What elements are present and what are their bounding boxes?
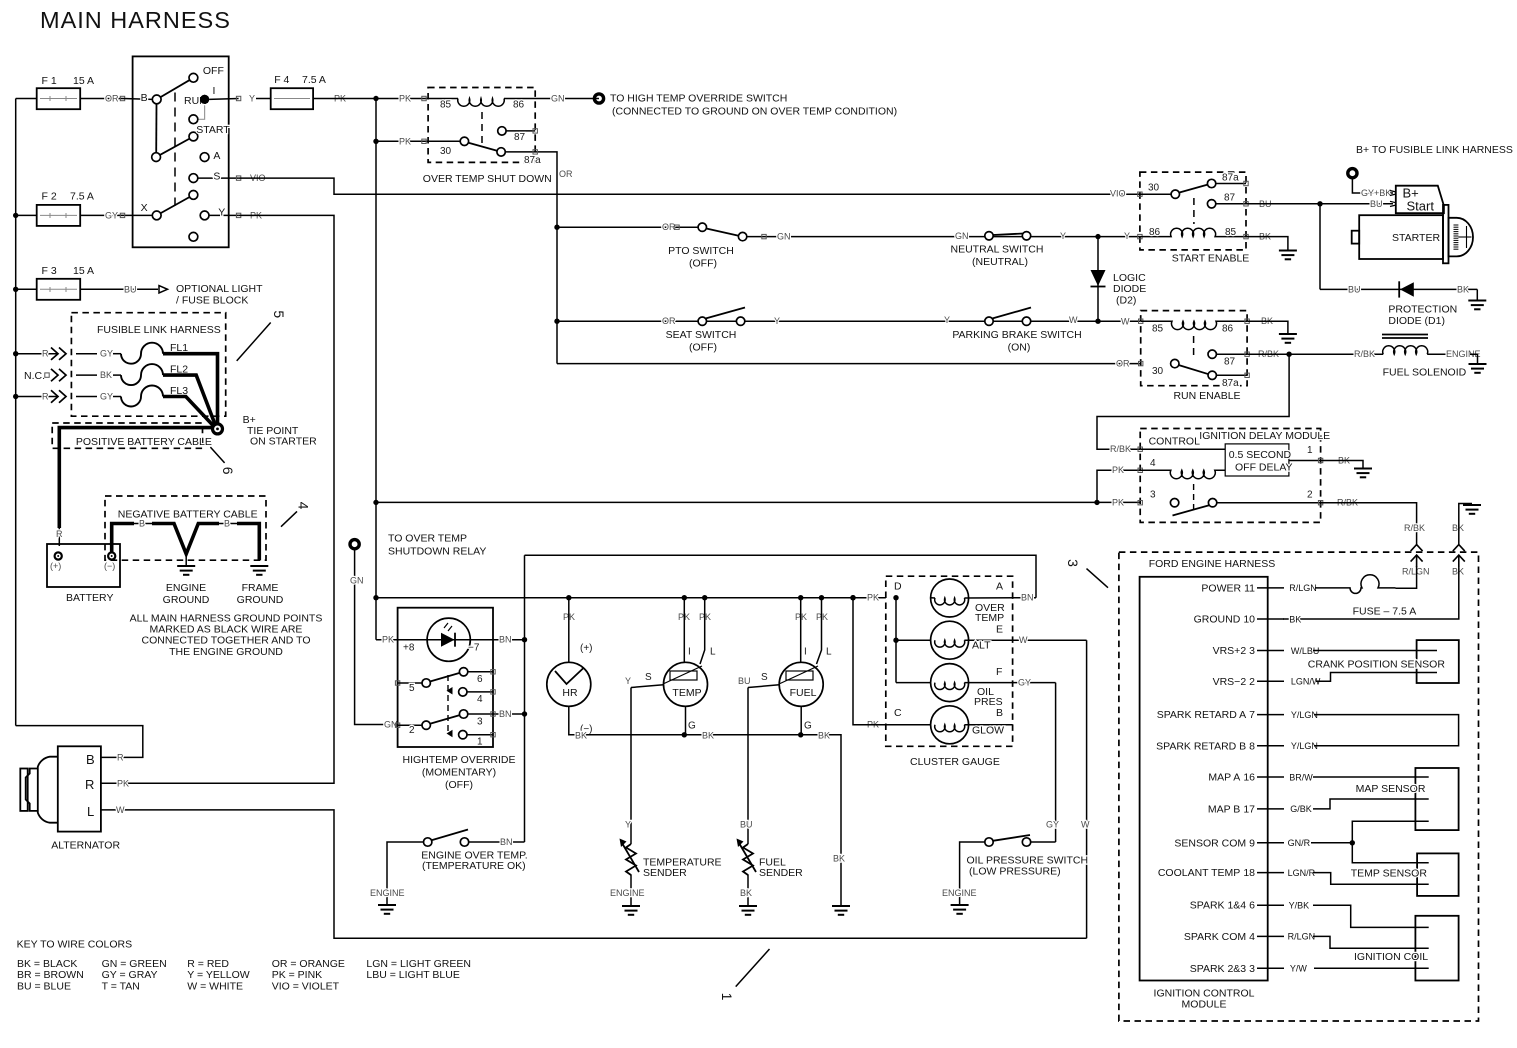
- svg-text:START: START: [196, 124, 230, 136]
- svg-text:FUSIBLE LINK HARNESS: FUSIBLE LINK HARNESS: [97, 324, 221, 336]
- svg-text:R = RED: R = RED: [187, 958, 229, 970]
- svg-text:VIO: VIO: [1110, 189, 1126, 199]
- svg-text:(MOMENTARY): (MOMENTARY): [422, 767, 496, 779]
- svg-text:Y: Y: [218, 207, 225, 219]
- svg-text:(+): (+): [580, 643, 593, 654]
- svg-text:N.C.: N.C.: [24, 370, 45, 382]
- svg-text:FRAME: FRAME: [242, 582, 279, 594]
- svg-text:D: D: [894, 581, 902, 593]
- svg-text:1: 1: [719, 993, 735, 1001]
- svg-text:PK = PINK: PK = PINK: [272, 969, 322, 981]
- svg-text:87: 87: [514, 132, 526, 143]
- svg-text:VIO = VIOLET: VIO = VIOLET: [272, 980, 340, 992]
- svg-text:CONTROL: CONTROL: [1149, 436, 1200, 448]
- svg-text:A: A: [213, 150, 220, 162]
- svg-text:PK: PK: [1112, 497, 1124, 507]
- svg-text:0.5 SECOND: 0.5 SECOND: [1229, 449, 1292, 461]
- svg-text:G: G: [804, 721, 812, 732]
- svg-text:G: G: [688, 721, 696, 732]
- svg-text:E: E: [996, 624, 1003, 636]
- svg-text:87: 87: [1224, 357, 1236, 368]
- svg-text:TO HIGH TEMP OVERRIDE SWITCH: TO HIGH TEMP OVERRIDE SWITCH: [610, 93, 787, 105]
- svg-text:(OFF): (OFF): [689, 342, 717, 354]
- svg-text:6: 6: [220, 467, 236, 475]
- svg-text:THE ENGINE GROUND: THE ENGINE GROUND: [169, 646, 283, 658]
- svg-text:BN: BN: [499, 709, 512, 719]
- svg-text:OR: OR: [662, 316, 676, 326]
- svg-text:IGNITION DELAY MODULE: IGNITION DELAY MODULE: [1199, 430, 1330, 442]
- svg-text:OFF DELAY: OFF DELAY: [1235, 462, 1293, 474]
- svg-text:Start: Start: [1407, 199, 1435, 214]
- svg-text:W: W: [1121, 317, 1130, 327]
- svg-text:PARKING BRAKE SWITCH: PARKING BRAKE SWITCH: [952, 329, 1081, 341]
- svg-text:OPTIONAL LIGHT: OPTIONAL LIGHT: [176, 283, 263, 295]
- svg-text:5: 5: [271, 310, 287, 318]
- svg-text:Y: Y: [1060, 231, 1066, 241]
- svg-text:MAP B17: MAP B17: [1208, 803, 1255, 815]
- svg-text:Y/LGN: Y/LGN: [1291, 710, 1318, 720]
- svg-text:HIGHTEMP OVERRIDE: HIGHTEMP OVERRIDE: [403, 754, 516, 766]
- svg-text:F 3: F 3: [42, 265, 57, 277]
- svg-text:OR: OR: [1116, 359, 1130, 369]
- svg-text:MAIN HARNESS: MAIN HARNESS: [40, 7, 231, 33]
- svg-text:GY: GY: [100, 392, 113, 402]
- svg-text:START ENABLE: START ENABLE: [1172, 253, 1250, 265]
- svg-text:PK: PK: [382, 635, 394, 645]
- svg-text:30: 30: [440, 146, 452, 157]
- svg-text:ON STARTER: ON STARTER: [250, 436, 317, 448]
- svg-text:GN: GN: [955, 231, 969, 241]
- svg-text:SENDER: SENDER: [643, 867, 687, 879]
- svg-text:BK: BK: [833, 854, 845, 864]
- svg-text:S: S: [213, 171, 220, 183]
- svg-text:BK: BK: [818, 731, 830, 741]
- svg-text:85: 85: [440, 100, 452, 111]
- svg-text:FUEL SOLENOID: FUEL SOLENOID: [1383, 367, 1467, 379]
- svg-text:LBU = LIGHT BLUE: LBU = LIGHT BLUE: [366, 969, 459, 981]
- svg-text:87: 87: [1224, 193, 1236, 204]
- svg-text:A: A: [996, 581, 1003, 593]
- svg-text:86: 86: [513, 100, 525, 111]
- svg-text:L: L: [826, 647, 832, 658]
- svg-text:SPARK 1&46: SPARK 1&46: [1190, 900, 1255, 912]
- svg-text:GY: GY: [100, 349, 113, 359]
- svg-text:PTO SWITCH: PTO SWITCH: [668, 245, 734, 257]
- svg-text:2: 2: [1307, 490, 1313, 501]
- svg-text:BN: BN: [1021, 593, 1034, 603]
- svg-text:GN = GREEN: GN = GREEN: [102, 958, 167, 970]
- svg-text:PROTECTION: PROTECTION: [1388, 304, 1457, 316]
- svg-text:BK: BK: [1452, 567, 1464, 577]
- svg-text:W: W: [1081, 820, 1090, 830]
- svg-text:SENDER: SENDER: [759, 867, 803, 879]
- svg-text:Y: Y: [249, 94, 255, 104]
- svg-text:BK: BK: [1457, 284, 1469, 294]
- svg-text:ENGINE: ENGINE: [166, 582, 206, 594]
- svg-text:B: B: [86, 752, 95, 767]
- svg-text:15 A: 15 A: [73, 75, 94, 87]
- svg-text:STARTER: STARTER: [1392, 232, 1440, 244]
- svg-text:(OFF): (OFF): [445, 779, 473, 791]
- svg-text:SHUTDOWN RELAY: SHUTDOWN RELAY: [388, 546, 486, 558]
- svg-text:GY: GY: [1018, 678, 1031, 688]
- svg-text:W: W: [116, 805, 125, 815]
- svg-text:4: 4: [296, 502, 312, 510]
- svg-text:4: 4: [477, 694, 483, 705]
- svg-text:+8: +8: [403, 643, 415, 654]
- svg-text:TO OVER TEMP: TO OVER TEMP: [388, 533, 467, 545]
- svg-text:87a: 87a: [524, 155, 541, 166]
- svg-text:MARKED AS BLACK WIRE ARE: MARKED AS BLACK WIRE ARE: [150, 624, 303, 636]
- svg-text:S: S: [761, 672, 768, 683]
- svg-text:R/BK: R/BK: [1354, 349, 1375, 359]
- svg-text:(D2): (D2): [1116, 295, 1136, 307]
- svg-text:TEMP: TEMP: [672, 687, 701, 699]
- svg-text:LGN/R: LGN/R: [1288, 868, 1316, 878]
- svg-text:NEUTRAL SWITCH: NEUTRAL SWITCH: [951, 244, 1044, 256]
- svg-text:−7: −7: [468, 643, 480, 654]
- svg-text:IGNITION COIL: IGNITION COIL: [1354, 951, 1428, 963]
- svg-text:L: L: [87, 804, 94, 819]
- svg-text:CLUSTER GAUGE: CLUSTER GAUGE: [910, 756, 1000, 768]
- svg-text:TEMP SENSOR: TEMP SENSOR: [1351, 868, 1428, 880]
- svg-text:MAP SENSOR: MAP SENSOR: [1356, 783, 1426, 795]
- svg-text:R: R: [85, 777, 94, 792]
- svg-text:GN/R: GN/R: [1288, 838, 1311, 848]
- svg-text:BU: BU: [1348, 284, 1361, 294]
- svg-text:BR = BROWN: BR = BROWN: [17, 969, 84, 981]
- svg-text:Y: Y: [625, 820, 631, 830]
- svg-text:BK: BK: [1452, 523, 1464, 533]
- svg-text:Y: Y: [1124, 231, 1130, 241]
- svg-text:MODULE: MODULE: [1182, 999, 1227, 1011]
- svg-text:R/BK: R/BK: [1110, 444, 1131, 454]
- svg-text:7.5 A: 7.5 A: [302, 74, 326, 86]
- svg-text:MAP A16: MAP A16: [1208, 772, 1255, 784]
- svg-text:OR = ORANGE: OR = ORANGE: [272, 958, 345, 970]
- svg-text:R: R: [42, 392, 49, 402]
- svg-text:R/BK: R/BK: [1404, 523, 1425, 533]
- svg-text:85: 85: [1225, 227, 1237, 238]
- svg-text:3: 3: [1150, 490, 1156, 501]
- svg-text:15 A: 15 A: [73, 265, 94, 277]
- svg-text:BU: BU: [1370, 199, 1383, 209]
- svg-text:GY: GY: [105, 210, 118, 220]
- svg-text:R: R: [117, 752, 124, 762]
- svg-text:Y/BK: Y/BK: [1289, 901, 1310, 911]
- svg-text:BN: BN: [499, 635, 512, 645]
- svg-text:GY = GRAY: GY = GRAY: [102, 969, 158, 981]
- svg-text:Y/LGN: Y/LGN: [1291, 741, 1318, 751]
- svg-text:VRS−22: VRS−22: [1213, 676, 1256, 688]
- svg-text:SENSOR COM9: SENSOR COM9: [1174, 837, 1255, 849]
- svg-text:2: 2: [409, 725, 415, 736]
- svg-text:PK: PK: [399, 136, 411, 146]
- svg-text:GY: GY: [1046, 820, 1059, 830]
- svg-text:7.5 A: 7.5 A: [70, 191, 94, 203]
- svg-text:(NEUTRAL): (NEUTRAL): [972, 256, 1028, 268]
- svg-text:BN: BN: [500, 837, 513, 847]
- svg-text:W: W: [1069, 315, 1078, 325]
- svg-text:R: R: [42, 349, 49, 359]
- svg-text:GROUND10: GROUND10: [1194, 614, 1256, 626]
- svg-text:3: 3: [1065, 559, 1081, 567]
- svg-text:BK: BK: [575, 731, 587, 741]
- svg-text:BU: BU: [124, 284, 137, 294]
- svg-text:TEMP: TEMP: [975, 612, 1004, 624]
- svg-text:OFF: OFF: [203, 65, 224, 77]
- svg-text:B: B: [224, 519, 230, 529]
- svg-text:LGN = LIGHT GREEN: LGN = LIGHT GREEN: [366, 958, 471, 970]
- svg-text:(LOW PRESSURE): (LOW PRESSURE): [969, 866, 1061, 878]
- svg-text:W = WHITE: W = WHITE: [187, 980, 243, 992]
- svg-text:(TEMPERATURE OK): (TEMPERATURE OK): [422, 860, 526, 872]
- svg-text:BK: BK: [1289, 614, 1301, 624]
- svg-text:/ FUSE BLOCK: / FUSE BLOCK: [176, 295, 248, 307]
- svg-text:5: 5: [409, 683, 415, 694]
- svg-text:HR: HR: [562, 687, 578, 699]
- svg-text:30: 30: [1152, 366, 1164, 377]
- svg-text:6: 6: [477, 674, 483, 685]
- svg-text:GLOW: GLOW: [972, 725, 1004, 737]
- svg-text:ALL MAIN HARNESS GROUND POINTS: ALL MAIN HARNESS GROUND POINTS: [130, 612, 323, 624]
- svg-text:DIODE (D1): DIODE (D1): [1388, 315, 1445, 327]
- svg-text:SEAT SWITCH: SEAT SWITCH: [666, 329, 737, 341]
- svg-text:POWER11: POWER11: [1201, 582, 1255, 594]
- svg-text:FUSE – 7.5 A: FUSE – 7.5 A: [1353, 606, 1417, 618]
- svg-text:KEY TO WIRE COLORS: KEY TO WIRE COLORS: [17, 939, 133, 951]
- svg-text:(CONNECTED TO GROUND ON OVER T: (CONNECTED TO GROUND ON OVER TEMP CONDIT…: [612, 106, 897, 118]
- svg-text:L: L: [710, 647, 716, 658]
- svg-text:OR: OR: [662, 222, 676, 232]
- svg-text:30: 30: [1148, 183, 1160, 194]
- svg-text:BATTERY: BATTERY: [66, 592, 113, 604]
- svg-text:Y: Y: [625, 676, 631, 686]
- svg-text:(OFF): (OFF): [689, 258, 717, 270]
- svg-text:ALT: ALT: [972, 640, 991, 652]
- svg-text:I: I: [804, 647, 807, 658]
- svg-text:R/LGN: R/LGN: [1289, 583, 1317, 593]
- svg-text:Y: Y: [944, 315, 950, 325]
- svg-text:B: B: [996, 707, 1003, 719]
- svg-text:GN: GN: [350, 576, 364, 586]
- svg-text:3: 3: [477, 717, 483, 728]
- svg-text:R: R: [56, 529, 63, 539]
- svg-text:BU: BU: [740, 820, 753, 830]
- svg-text:S: S: [645, 672, 652, 683]
- svg-text:OVER TEMP SHUT DOWN: OVER TEMP SHUT DOWN: [423, 173, 552, 185]
- svg-text:PK: PK: [1112, 465, 1124, 475]
- svg-text:BR/W: BR/W: [1289, 772, 1313, 782]
- svg-text:Y = YELLOW: Y = YELLOW: [187, 969, 249, 981]
- svg-text:GN: GN: [777, 232, 791, 242]
- svg-text:CRANK POSITION SENSOR: CRANK POSITION SENSOR: [1308, 659, 1446, 671]
- svg-text:BK: BK: [740, 888, 752, 898]
- svg-text:SPARK COM4: SPARK COM4: [1184, 931, 1255, 943]
- svg-text:C: C: [894, 707, 902, 719]
- svg-text:(−): (−): [104, 561, 115, 571]
- svg-text:ENGINE: ENGINE: [942, 888, 977, 898]
- svg-text:R/LGN: R/LGN: [1402, 567, 1430, 577]
- svg-text:I: I: [688, 647, 691, 658]
- svg-text:ENGINE: ENGINE: [610, 888, 645, 898]
- svg-text:1: 1: [1307, 445, 1313, 456]
- svg-text:GN: GN: [551, 94, 565, 104]
- svg-text:G/BK: G/BK: [1290, 804, 1312, 814]
- svg-text:SPARK 2&33: SPARK 2&33: [1190, 963, 1255, 975]
- svg-text:POSITIVE BATTERY CABLE: POSITIVE BATTERY CABLE: [76, 436, 212, 448]
- svg-text:B+ TO FUSIBLE LINK HARNESS: B+ TO FUSIBLE LINK HARNESS: [1356, 144, 1513, 156]
- svg-text:(ON): (ON): [1008, 342, 1031, 354]
- svg-text:I: I: [213, 85, 216, 97]
- svg-text:FORD ENGINE HARNESS: FORD ENGINE HARNESS: [1149, 558, 1276, 570]
- svg-text:DIODE: DIODE: [1113, 283, 1146, 295]
- svg-text:86: 86: [1149, 227, 1161, 238]
- svg-text:4: 4: [1150, 458, 1156, 469]
- svg-text:GY+BK: GY+BK: [1361, 188, 1391, 198]
- svg-text:BK: BK: [100, 370, 112, 380]
- svg-text:BU: BU: [738, 676, 751, 686]
- svg-text:SPARK RETARD A7: SPARK RETARD A7: [1157, 709, 1255, 721]
- svg-text:F: F: [996, 666, 1002, 678]
- svg-text:86: 86: [1222, 324, 1234, 335]
- svg-text:1: 1: [477, 737, 483, 748]
- svg-text:FUEL: FUEL: [790, 687, 817, 699]
- svg-text:T = TAN: T = TAN: [102, 980, 140, 992]
- svg-text:CONNECTED TOGETHER AND TO: CONNECTED TOGETHER AND TO: [142, 635, 311, 647]
- svg-text:87a: 87a: [1222, 378, 1239, 389]
- svg-text:OR: OR: [105, 94, 119, 104]
- svg-text:SPARK RETARD B8: SPARK RETARD B8: [1156, 740, 1255, 752]
- svg-text:GROUND: GROUND: [237, 594, 284, 606]
- svg-text:PK: PK: [867, 593, 879, 603]
- svg-text:(+): (+): [50, 561, 61, 571]
- svg-text:BU = BLUE: BU = BLUE: [17, 980, 71, 992]
- svg-text:RUN ENABLE: RUN ENABLE: [1173, 390, 1240, 402]
- svg-text:87a: 87a: [1222, 173, 1239, 184]
- svg-text:PK: PK: [117, 778, 129, 788]
- svg-text:X: X: [141, 202, 148, 214]
- svg-text:BK: BK: [702, 731, 714, 741]
- svg-text:B: B: [141, 92, 148, 104]
- svg-text:PK: PK: [399, 94, 411, 104]
- svg-text:OR: OR: [559, 169, 573, 179]
- svg-text:85: 85: [1152, 324, 1164, 335]
- svg-text:R/LGN: R/LGN: [1288, 932, 1316, 942]
- svg-text:VRS+23: VRS+23: [1213, 645, 1256, 657]
- svg-text:GROUND: GROUND: [163, 594, 210, 606]
- svg-text:Y/W: Y/W: [1290, 964, 1308, 974]
- svg-text:B: B: [139, 519, 145, 529]
- svg-text:F 1: F 1: [42, 75, 57, 87]
- svg-text:ALTERNATOR: ALTERNATOR: [51, 840, 120, 852]
- svg-text:F 4: F 4: [274, 74, 289, 86]
- svg-text:BK = BLACK: BK = BLACK: [17, 958, 77, 970]
- svg-text:W: W: [1019, 635, 1028, 645]
- svg-text:F 2: F 2: [42, 191, 57, 203]
- svg-text:ENGINE: ENGINE: [370, 888, 405, 898]
- svg-text:Y: Y: [774, 316, 780, 326]
